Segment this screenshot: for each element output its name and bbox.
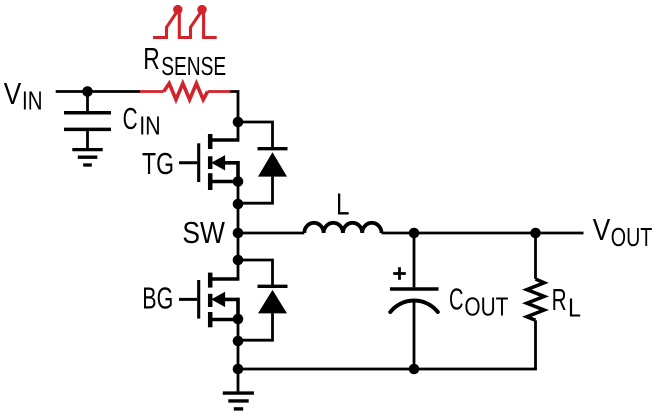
wire SW rail to inductor [238,232,304,235]
diode D2 body diode of Q2 [238,260,288,340]
capacitor COUT curved bottom plate [390,301,438,312]
ground main [223,393,254,409]
svg-text:L: L [568,295,581,323]
capacitor CIN bottom plate [64,128,111,132]
wire top rail black segment to corner [230,92,239,141]
body wire to source [219,299,238,319]
wire bottom rail [238,367,536,369]
wire diode top branch [238,122,273,149]
waveform peak dot 1 [173,5,182,14]
channel segment body [208,294,213,307]
node SW [233,228,244,239]
wire diode bottom branch [238,313,273,340]
svg-text:IN: IN [22,88,43,116]
wire diode top branch [238,260,273,287]
body arrow of Q1 [211,155,225,170]
capacitor COUT top plate [390,287,439,290]
svg-text:OUT: OUT [464,293,508,321]
channel segment source [208,173,213,190]
wire CIN to ground [86,131,89,148]
wire red sense segment right [208,90,231,93]
svg-text:C: C [123,101,138,136]
node TG source junction [233,176,244,187]
svg-text:V: V [593,212,611,247]
gate bar [197,280,200,319]
gate lead TG [179,161,197,164]
svg-text:R: R [143,41,160,76]
node TG diode bottom junction [233,199,244,210]
wire TG to SW [237,204,240,233]
ground below CIN [72,150,102,165]
waveform peak dot 2 [197,5,206,14]
wire BG to ground rail [237,341,240,369]
node BG diode bottom junction [233,336,244,347]
anode triangle D2 [258,290,287,314]
capacitor COUT stem bottom [413,301,416,369]
svg-text:R: R [552,282,567,317]
svg-text:BG: BG [142,281,173,316]
wire to VOUT [536,232,584,235]
svg-text:IN: IN [139,113,161,141]
wire BG drain [237,260,240,279]
body arrow of Q2 [211,292,225,307]
diode D1 body diode of Q1 [238,122,288,203]
wire diode bottom branch [238,177,273,204]
svg-text:L: L [336,186,350,221]
channel segment body [208,156,213,169]
svg-text:C: C [449,281,464,316]
svg-text:V: V [4,76,22,111]
resistor RL lead bottom [534,320,537,369]
inductor L [304,223,381,233]
wire inductor to COUT node [382,232,415,235]
svg-text:OUT: OUT [611,224,653,252]
wire red sense segment left [140,90,164,93]
resistor RL lead top [534,233,537,279]
capacitor COUT stem top [413,233,416,287]
node TG drain junction [233,117,244,128]
channel segment source [208,312,213,327]
wire COUT node to RL node [414,232,536,235]
body wire to source [219,163,238,182]
plus sign of COUT [393,267,406,280]
drain stub [210,277,239,281]
wire source to diode bottom [237,319,240,341]
gate lead BG [179,298,197,301]
source stub [210,318,238,322]
source stub [210,180,238,184]
node RL top [530,228,541,239]
channel segment drain [208,273,213,288]
gate bar [197,143,200,182]
node COUT bottom [409,364,420,375]
resistor RSENSE zigzag [164,83,208,99]
capacitor CIN stub [86,92,89,112]
svg-text:TG: TG [142,146,174,181]
transistor Q1 TG MOSFET [179,134,239,190]
node COUT top [409,228,420,239]
wire source to diode bottom [237,182,240,205]
cathode bar D2 [258,285,288,288]
drain stub [210,138,239,142]
node BG drain junction [233,255,244,266]
wire SW to BG [237,233,240,260]
node BG source junction [233,314,244,325]
wire V_IN input rail [56,90,140,93]
capacitor CIN top plate [64,111,111,115]
svg-text:SENSE: SENSE [161,53,226,81]
resistor RL zigzag [527,279,544,320]
svg-text:SW: SW [182,215,225,250]
node ground rail junction [233,364,244,375]
node VIN/CIN junction [82,86,93,97]
current waveform symbol [153,11,217,38]
cathode bar D1 [258,147,288,150]
channel segment drain [208,134,213,149]
anode triangle D1 [258,152,287,176]
wire ground stem [237,369,240,391]
transistor Q2 BG MOSFET [179,273,239,328]
